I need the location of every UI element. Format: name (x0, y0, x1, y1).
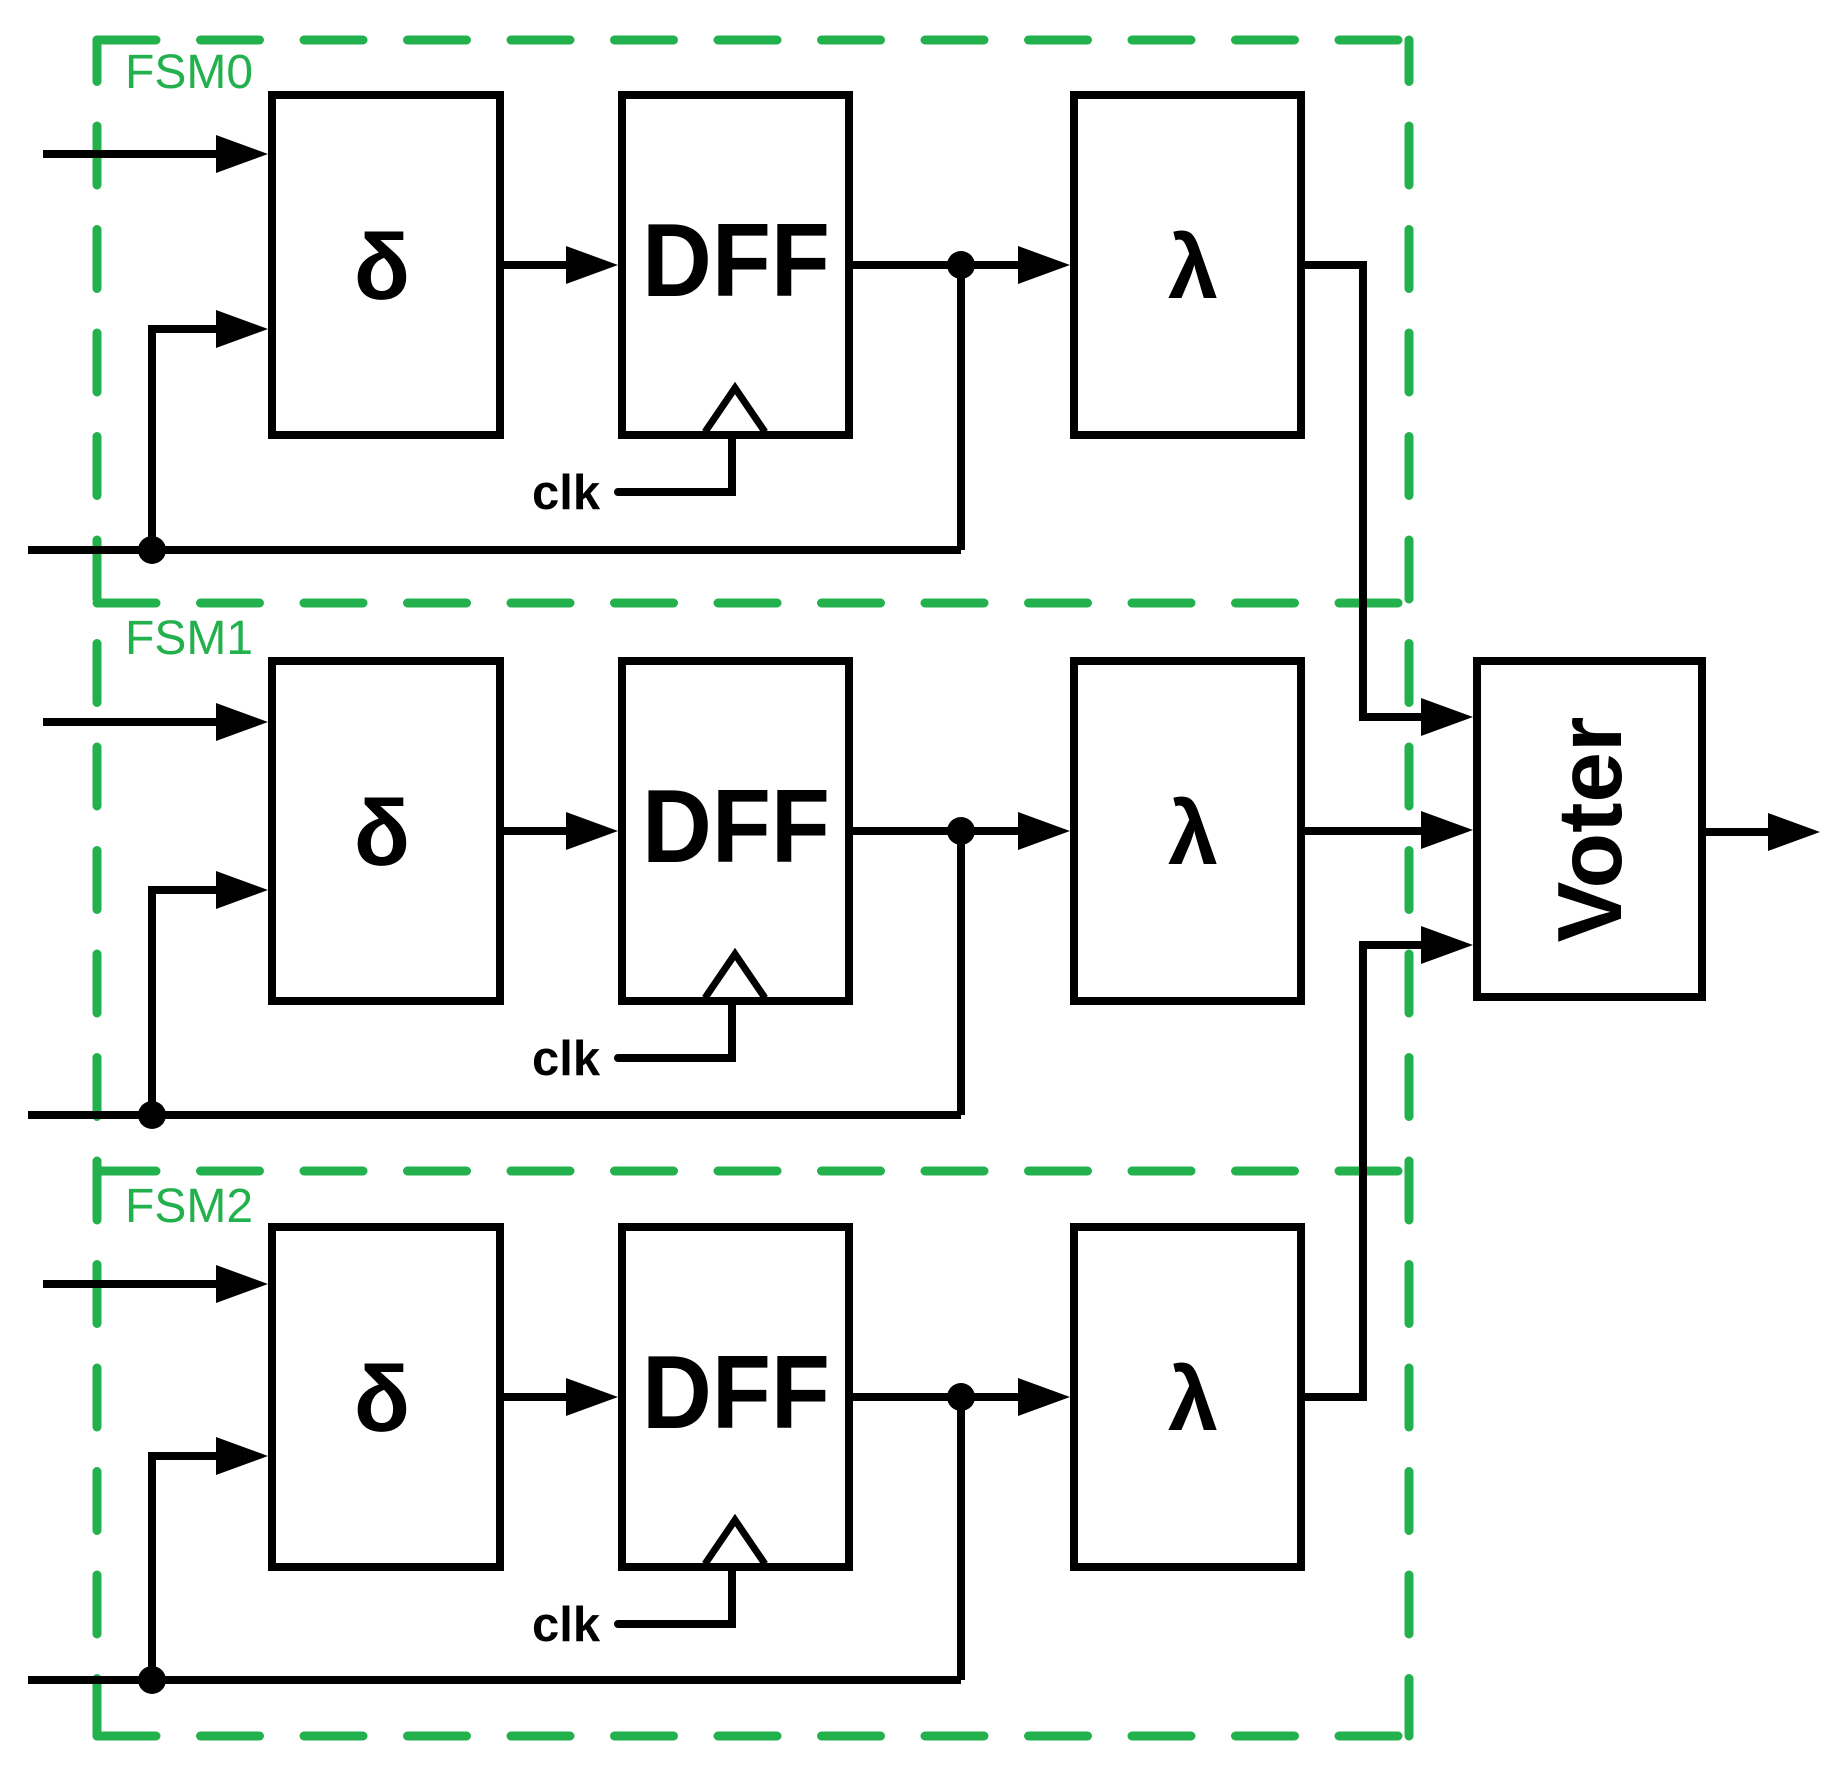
wire: FSM0 feedback bus (28, 546, 961, 554)
arrowhead: voter input 1 (1421, 698, 1473, 736)
arrowhead: state into lambda L2 (1018, 1378, 1070, 1416)
flip-flop DFF2 (622, 1227, 849, 1567)
wire: DFF1 output to lambda L1 (849, 827, 1022, 835)
arrowhead: FSM2 primary input into delta D2 (216, 1265, 268, 1303)
wire: FSM2 feedback bus (28, 1676, 961, 1684)
FSM0 dashed boundary box, top edge (97, 36, 1409, 45)
wire: delta D0 output to DFF0 (500, 261, 570, 269)
svg-text:δ: δ (354, 1347, 410, 1451)
clock edge triangle on DFF2 (705, 1520, 765, 1564)
wire: lambda L0 output down to voter input 1 (1301, 265, 1421, 717)
junction: FSM2 present-state node (947, 1383, 975, 1411)
wire: delta D1 output to DFF1 (500, 827, 570, 835)
svg-text:clk: clk (532, 466, 601, 520)
wire: FSM2 feedback drop from state node (957, 1397, 965, 1680)
arrowhead: state into lambda L1 (1018, 812, 1070, 850)
wire: voter output (1702, 828, 1772, 836)
junction: FSM0 feedback tap (138, 536, 166, 564)
svg-text:FSM1: FSM1 (125, 612, 253, 665)
wire: DFF0 output to lambda L0 (849, 261, 1022, 269)
wire: lambda L2 output up to voter input 3 (1301, 945, 1421, 1397)
wire: DFF2 output to lambda L2 (849, 1393, 1022, 1401)
junction: FSM2 feedback tap (138, 1666, 166, 1694)
delta block D0 (next-state logic of FSM0) (272, 95, 500, 435)
wire: delta D2 output to DFF2 (500, 1393, 570, 1401)
svg-text:λ: λ (1168, 1350, 1218, 1450)
wire: FSM1 primary input (43, 718, 222, 726)
arrowhead: next state into DFF1 (566, 812, 618, 850)
arrowhead: FSM2 state feedback into delta D2 (216, 1437, 268, 1475)
wire: FSM1 feedback drop from state node (957, 831, 965, 1115)
clock edge triangle on DFF0 (705, 388, 765, 432)
wire: FSM1 feedback bus (28, 1111, 961, 1119)
svg-text:clk: clk (532, 1032, 601, 1086)
delta block D2 (next-state logic of FSM2) (272, 1227, 500, 1567)
svg-text:DFF: DFF (642, 769, 830, 885)
arrowhead: FSM0 state feedback into delta D0 (216, 310, 268, 348)
flip-flop DFF1 (622, 661, 849, 1001)
svg-text:λ: λ (1168, 784, 1218, 884)
svg-text:DFF: DFF (642, 203, 830, 319)
lambda block L0 (output logic of FSM0) (1074, 95, 1301, 435)
svg-text:Voter: Voter (1540, 717, 1641, 943)
arrowhead: voter input 3 (1421, 926, 1473, 964)
arrowhead: state into lambda L0 (1018, 246, 1070, 284)
wire: FSM0 primary input (43, 150, 222, 158)
wire: clk into DFF2 clock pin (618, 1567, 732, 1624)
wire: clk into DFF0 clock pin (618, 435, 732, 492)
arrowhead: voter input 2 (1421, 811, 1473, 849)
svg-text:δ: δ (354, 781, 410, 885)
arrowhead: next state into DFF2 (566, 1378, 618, 1416)
arrowhead: FSM1 primary input into delta D1 (216, 703, 268, 741)
voter block U-VOTER (majority voter) (1477, 661, 1702, 997)
dashed boundary, left edge of FSM0/FSM1/FSM2 (93, 40, 102, 1736)
wire: clk into DFF1 clock pin (618, 1001, 732, 1058)
dashed boundary, right edge of FSM0/FSM1/FSM2 (1405, 40, 1414, 1736)
wire: FSM1 state feedback riser into delta D1 (152, 890, 222, 1115)
junction: FSM1 present-state node (947, 817, 975, 845)
arrowhead: FSM1 state feedback into delta D1 (216, 871, 268, 909)
svg-text:clk: clk (532, 1598, 601, 1652)
delta block D1 (next-state logic of FSM1) (272, 661, 500, 1001)
svg-text:δ: δ (354, 215, 410, 319)
lambda block L2 (output logic of FSM2) (1074, 1227, 1301, 1567)
svg-text:DFF: DFF (642, 1335, 830, 1451)
FSM0/FSM1 shared dashed boundary edge (97, 599, 1409, 608)
lambda block L1 (output logic of FSM1) (1074, 661, 1301, 1001)
svg-text:FSM2: FSM2 (125, 1180, 253, 1233)
junction: FSM0 present-state node (947, 251, 975, 279)
wire: FSM0 feedback drop from state node (957, 265, 965, 550)
arrowhead: next state into DFF0 (566, 246, 618, 284)
arrowhead: FSM0 primary input into delta D0 (216, 135, 268, 173)
wire: FSM2 primary input (43, 1280, 222, 1288)
FSM1/FSM2 shared dashed boundary edge (97, 1167, 1409, 1176)
wire: FSM2 state feedback riser into delta D2 (152, 1456, 222, 1680)
wire: FSM0 state feedback riser into delta D0 (152, 329, 222, 550)
flip-flop DFF0 (622, 95, 849, 435)
clock edge triangle on DFF1 (705, 954, 765, 998)
arrowhead: system output (1768, 813, 1820, 851)
FSM2 dashed boundary box, bottom edge (97, 1732, 1409, 1741)
svg-text:FSM0: FSM0 (125, 46, 253, 99)
wire: lambda L1 output to voter input 2 (1301, 827, 1421, 835)
junction: FSM1 feedback tap (138, 1101, 166, 1129)
svg-text:λ: λ (1168, 218, 1218, 318)
